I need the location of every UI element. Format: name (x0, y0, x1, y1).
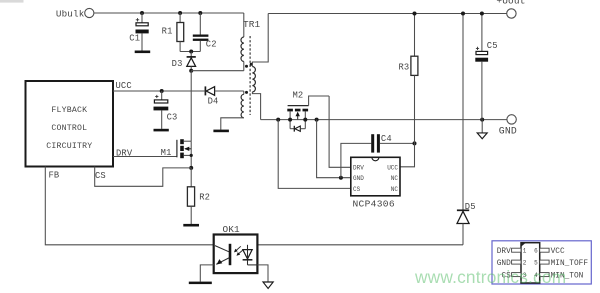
svg-text:D4: D4 (208, 96, 219, 106)
wire R3/C4 to VCC pin (400, 143, 415, 166)
capacitor C5 (475, 14, 497, 120)
wire CS from box to M1 source (95, 167, 192, 187)
wire aux top stub (243, 91, 245, 94)
svg-text:M1: M1 (161, 148, 172, 158)
junction R1 top (178, 11, 182, 15)
capacitor C4 (341, 134, 415, 178)
junction R3 top (413, 12, 417, 16)
diode D5 (457, 14, 476, 245)
svg-text:CIRCUITRY: CIRCUITRY (46, 142, 92, 151)
svg-text:C5: C5 (487, 41, 498, 51)
wire DRV to M1 gate (113, 156, 177, 158)
svg-text:UCC: UCC (387, 165, 398, 172)
transistor M1 (161, 139, 193, 168)
svg-text:CONTROL: CONTROL (51, 124, 87, 133)
wire M2 gate (309, 96, 330, 106)
svg-text:6: 6 (534, 247, 538, 254)
wire D5 to optocoupler (257, 244, 463, 246)
junction rail/C5 (480, 118, 484, 122)
resistor R3 (398, 14, 417, 144)
svg-text:D3: D3 (172, 59, 183, 69)
emitter line with arrow (216, 258, 229, 265)
svg-text:FB: FB (49, 171, 60, 181)
transformer TR1 (221, 13, 507, 130)
junction D3 anode (189, 69, 193, 73)
wire M2 gate to DRV pin (329, 96, 351, 167)
wire primary top stub (243, 13, 245, 37)
svg-text:C1: C1 (129, 33, 140, 43)
secondary phase dot (250, 63, 253, 66)
svg-text:D5: D5 (465, 202, 476, 212)
wire rail to GND pin (317, 120, 351, 178)
wire secondary bottom (252, 92, 260, 120)
svg-text:www.cntronics.com: www.cntronics.com (414, 267, 566, 287)
core (249, 36, 251, 115)
ground aux winding (213, 130, 229, 133)
light arrows (235, 246, 241, 251)
capacitor C1 (129, 13, 148, 51)
svg-text:CS: CS (95, 171, 106, 181)
transistor M2 (SR MOSFET) (287, 91, 329, 132)
svg-text:GND: GND (353, 175, 364, 182)
body diode of M2 (289, 120, 291, 129)
wire Vbulk rail (94, 12, 244, 14)
wire output top rail (268, 13, 507, 15)
ground C3 (154, 129, 169, 132)
ground symbol secondary (477, 120, 487, 139)
junction C2 top (198, 11, 202, 15)
svg-text:C4: C4 (381, 134, 392, 144)
LED (243, 250, 252, 259)
junction D3 cathode (189, 50, 193, 54)
pin 1 DRV (512, 248, 521, 252)
svg-text:UCC: UCC (116, 81, 132, 91)
node GND terminal (499, 115, 517, 137)
junction rail/CS branch (276, 118, 280, 122)
svg-text:2: 2 (523, 259, 527, 266)
node Ubulk terminal (56, 8, 94, 19)
wire OK1 emitter to ground (200, 265, 213, 282)
svg-text:GND: GND (499, 126, 517, 137)
wire M2 drain to CS pin (278, 120, 351, 189)
svg-text:R3: R3 (398, 63, 409, 73)
ground OK1 left (189, 282, 212, 285)
collector line (215, 246, 229, 252)
junction M1 source / R2 / CS (189, 166, 193, 170)
svg-text:TR1: TR1 (243, 19, 261, 30)
junction C1 top (140, 11, 144, 15)
diode D4 (205, 86, 243, 106)
svg-text:5: 5 (534, 259, 538, 266)
junction C3 top (160, 89, 164, 93)
ground symbol OK1 right (263, 282, 273, 289)
svg-text:OK1: OK1 (223, 224, 241, 235)
pin 2 GND (512, 260, 521, 264)
wire VCC rail (113, 90, 205, 92)
wire R1/C2 bottoms to D3 (180, 51, 200, 53)
pinout legend box (492, 241, 591, 284)
resistor R2 (187, 168, 210, 224)
svg-text:NC: NC (391, 175, 399, 182)
IC body (521, 243, 540, 283)
svg-text:R1: R1 (162, 27, 173, 37)
phototransistor base bar (229, 244, 232, 265)
svg-text:1: 1 (523, 247, 527, 254)
junction rail/M2 drain (288, 118, 292, 122)
resistor R1 (162, 13, 184, 52)
op-amp U1 NCP4306 (351, 157, 400, 209)
wire OK1 cathode to ground (257, 265, 268, 282)
svg-text:C2: C2 (206, 40, 217, 50)
svg-text:NCP4306: NCP4306 (353, 198, 395, 209)
cropped artifact top-left (0, 0, 24, 3)
aux winding (241, 94, 244, 118)
junction D5 top (461, 12, 465, 16)
ground R2 (183, 224, 199, 227)
junction C5 top (480, 12, 484, 16)
wire secondary ground rail (261, 119, 507, 121)
svg-text:Ubulk: Ubulk (56, 9, 85, 20)
svg-text:DRV: DRV (353, 165, 364, 172)
primary winding (241, 37, 244, 61)
secondary winding (252, 67, 255, 92)
wire aux bottom (221, 118, 244, 130)
svg-text:VCC: VCC (551, 248, 565, 256)
diode D3 (172, 52, 196, 71)
wire secondary top (252, 14, 268, 67)
junction C4/R3 (413, 141, 417, 145)
svg-text:DRV: DRV (497, 248, 511, 256)
wire D3 anode down to M1 drain (190, 71, 192, 142)
svg-text:R2: R2 (199, 193, 210, 203)
capacitor C2 (193, 13, 217, 52)
node +Uout terminal (496, 0, 525, 18)
flyback controller box U? (26, 81, 133, 181)
pin 3 CS (512, 273, 521, 277)
primary phase dot (245, 65, 248, 68)
junction rail/M2 source (303, 118, 307, 122)
pin 5 MIN_TOFF (540, 260, 549, 264)
optocoupler OK1 (214, 224, 258, 273)
junction rail/GND branch (315, 118, 319, 122)
svg-text:+Uout: +Uout (496, 0, 525, 6)
aux phase dot (245, 91, 248, 94)
ground C1 (135, 51, 151, 54)
capacitor C3 (154, 91, 178, 129)
svg-text:NC: NC (391, 186, 399, 193)
pin 6 VCC (540, 248, 549, 252)
junction C4/GND pin (339, 176, 343, 180)
svg-text:M2: M2 (293, 91, 304, 101)
svg-text:C3: C3 (167, 113, 178, 123)
wire FB to optocoupler (45, 167, 213, 245)
wire D3 anode to TR1 primary bottom (191, 70, 244, 72)
svg-text:FLYBACK: FLYBACK (51, 106, 87, 115)
svg-text:CS: CS (353, 186, 361, 193)
pin 4 MIN_TON (540, 273, 549, 277)
wire primary bottom stub (243, 62, 245, 71)
